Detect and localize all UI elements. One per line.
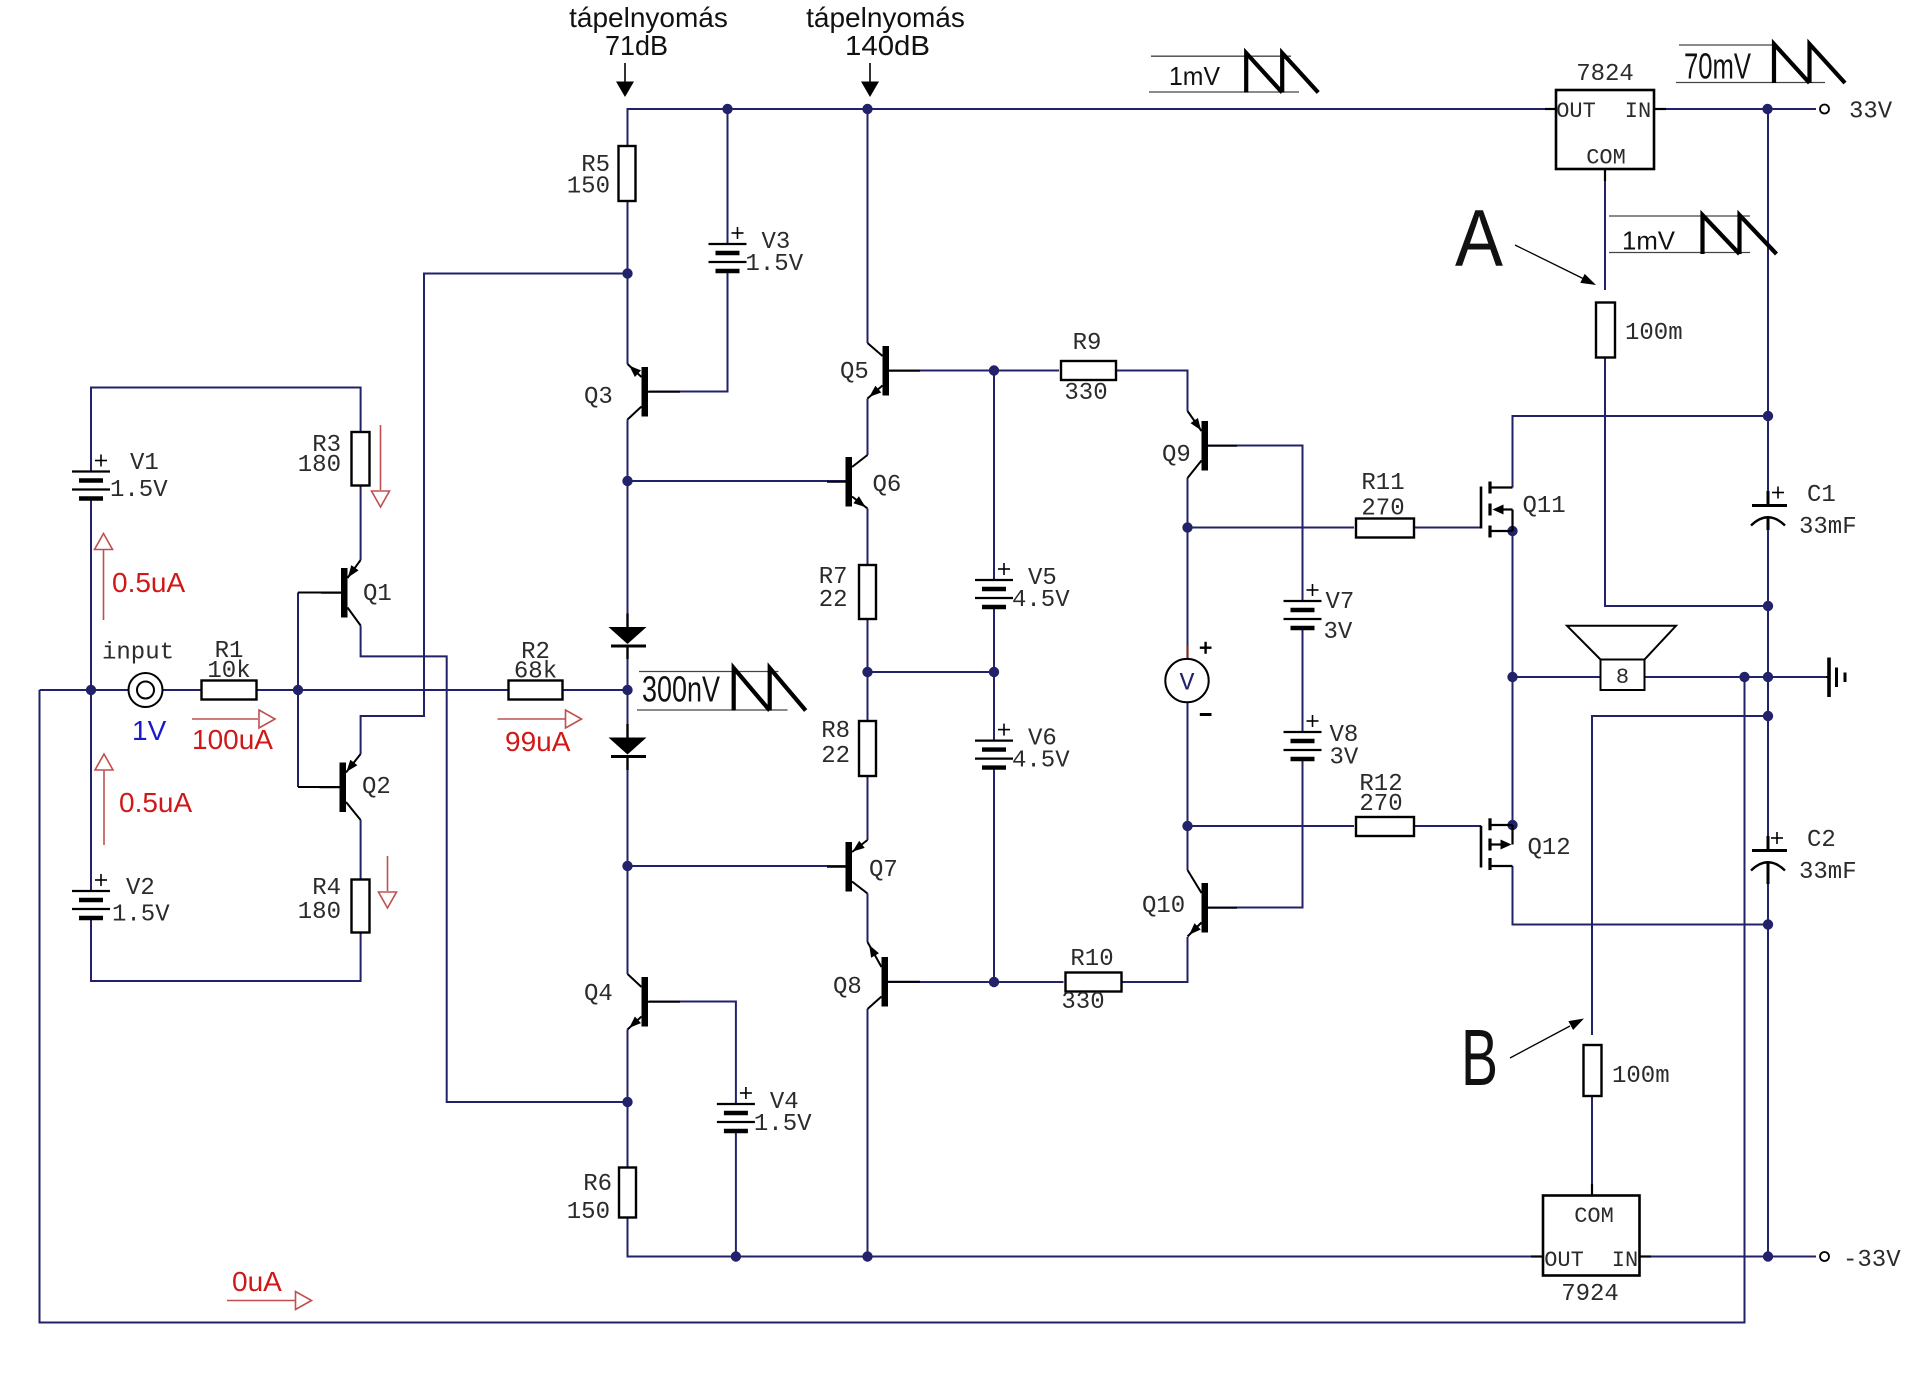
wire Q4 base to V4 (649, 1002, 736, 1105)
current arrow 100uA (192, 710, 275, 755)
battery V4 1.5V (717, 1087, 812, 1138)
current arrow 0uA (227, 1266, 312, 1310)
wire Q9 base to V7 (1208, 446, 1303, 602)
battery V6 4.5V (975, 724, 1070, 775)
regulator U1 7824 (1556, 61, 1654, 171)
wire V4 to -33V rail (735, 1131, 737, 1257)
wire R9 to Q9 emitter (1116, 371, 1188, 412)
svg-text:C1: C1 (1807, 482, 1836, 509)
svg-text:33mF: 33mF (1799, 514, 1857, 541)
svg-text:1.5V: 1.5V (754, 1111, 812, 1138)
node junction at 994,370.5 (989, 365, 999, 375)
svg-text:-33V: -33V (1843, 1247, 1901, 1274)
wire top rail 7824 IN to +33V terminal (1654, 108, 1816, 110)
node junction at 1512.5,825 (1507, 820, 1517, 830)
transistor Q6 (827, 455, 901, 509)
resistor R5 (567, 146, 636, 201)
resistor R6 (567, 1168, 636, 1227)
node junction at 1768,416 (1763, 411, 1773, 421)
svg-text:1.5V: 1.5V (110, 477, 168, 504)
wire R8 to Q7 collector (867, 776, 869, 840)
wire Q5 base to R9 (889, 370, 1059, 372)
label 1mV sawtooth A (1609, 215, 1777, 256)
svg-text:IN: IN (1625, 99, 1651, 124)
svg-text:Q5: Q5 (840, 359, 869, 386)
wire Q2 collector to R4 (360, 820, 362, 880)
svg-text:180: 180 (298, 899, 341, 926)
wire R3 to Q1 emitter (360, 486, 362, 561)
svg-text:140dB: 140dB (845, 30, 930, 61)
svg-text:180: 180 (298, 452, 341, 479)
svg-text:1mV: 1mV (1622, 226, 1676, 256)
svg-text:3V: 3V (1330, 745, 1359, 772)
MOSFET Q12 (1481, 818, 1571, 870)
wire V6 to R10 node (993, 768, 995, 982)
svg-text:71dB: 71dB (605, 30, 668, 61)
label 1mV sawtooth top (1149, 53, 1318, 93)
label tapelnyomas 140dB (806, 2, 965, 61)
svg-text:COM: COM (1574, 1204, 1614, 1229)
label tapelnyomas 71dB (569, 2, 728, 61)
wire R11 node to voltmeter (1187, 528, 1189, 647)
svg-text:100m: 100m (1612, 1063, 1670, 1090)
svg-text:330: 330 (1061, 989, 1104, 1016)
svg-text:R9: R9 (1073, 330, 1102, 357)
svg-text:Q1: Q1 (363, 581, 392, 608)
capacitor C1 (1751, 482, 1857, 541)
wire C2 to -33V rail (1767, 884, 1769, 1257)
diode D2 (609, 724, 647, 770)
wire R11 node to R11 (1188, 527, 1355, 529)
svg-text:0.5uA: 0.5uA (112, 567, 185, 598)
svg-text:22: 22 (819, 587, 848, 614)
wire top +rail from R5 corner to 7824 OUT (628, 109, 1557, 146)
svg-text:R11: R11 (1361, 470, 1404, 497)
label A with arrow (1455, 194, 1596, 285)
wire Q4 emitter to R6 (627, 1030, 629, 1168)
resistor R10 (1061, 946, 1121, 1016)
wire source to R1 (163, 689, 201, 691)
arrow into top rail 140dB (861, 63, 879, 97)
svg-text:Q12: Q12 (1528, 835, 1571, 862)
wire R9 node to V5 (993, 371, 995, 581)
wire voltmeter red terminal (1186, 646, 1188, 659)
svg-text:Q11: Q11 (1523, 493, 1566, 520)
node junction at 627.5,690 (622, 685, 632, 695)
svg-text:0uA: 0uA (232, 1266, 282, 1297)
svg-text:100uA: 100uA (192, 724, 273, 755)
node junction at 627.5,1102 (622, 1097, 632, 1107)
current arrow 99uA (498, 710, 582, 757)
wire top rail to Q5 collector (867, 109, 869, 343)
voltage source input (102, 640, 174, 708)
wire R5 bottom to Q3 emitter (627, 201, 629, 364)
node junction at 994,672 (989, 667, 999, 677)
wire input node to source (40, 689, 129, 691)
wire Q8 collector to -33V rail (867, 1009, 869, 1257)
node junction at 1187.5,527.5 (1182, 522, 1192, 532)
node junction at 994,982 (989, 977, 999, 987)
svg-text:B: B (1461, 1013, 1498, 1102)
wire Q3 collector to diode D1 (627, 420, 629, 614)
wire voltmeter to R12 node (1187, 703, 1189, 870)
diode D1 (609, 614, 647, 660)
svg-text:300nV: 300nV (642, 669, 720, 710)
svg-text:COM: COM (1586, 146, 1626, 171)
svg-text:70mV: 70mV (1684, 46, 1751, 87)
node junction at 1768,716 (1763, 711, 1773, 721)
battery V7 3V (1284, 584, 1355, 646)
svg-text:V7: V7 (1326, 589, 1355, 616)
svg-text:Q10: Q10 (1142, 893, 1185, 920)
wire Q11 drain to C1 node (1513, 416, 1769, 488)
node junction at 867.5,672 (862, 667, 872, 677)
node junction at 1768,924.5 (1763, 919, 1773, 929)
svg-text:R4: R4 (312, 875, 341, 902)
label 300nV sawtooth (637, 668, 806, 711)
wire Q8 base to R10 (888, 981, 1064, 983)
wire D2 cathode to Q7 base node to Q4 collector (627, 770, 629, 974)
current arrow down R4 (379, 856, 397, 908)
battery V1 1.5V (72, 450, 168, 504)
wire V7 to V8 (1302, 628, 1304, 732)
svg-text:input: input (102, 640, 174, 667)
resistor R11 (1356, 470, 1414, 538)
resistor R9 (1061, 330, 1116, 407)
wire Q1 collector to Q4 emitter node (361, 626, 628, 1103)
label 1V blue (132, 715, 167, 746)
wire sense resistor B to 7924 COM (1591, 1096, 1593, 1196)
svg-text:99uA: 99uA (505, 726, 571, 757)
svg-text:Q9: Q9 (1162, 442, 1191, 469)
svg-text:R10: R10 (1070, 946, 1113, 973)
ground (1826, 658, 1845, 698)
svg-text:22: 22 (821, 743, 850, 770)
speaker 8 ohm (1567, 626, 1676, 690)
wire sense resistor A to C1 node (1605, 358, 1768, 607)
node junction at 735.9,1256.5 (731, 1251, 741, 1261)
wire V3 to Q3 base (649, 272, 728, 392)
node junction at 867.5,109 (862, 104, 872, 114)
svg-text:10k: 10k (207, 658, 250, 685)
svg-text:V1: V1 (130, 450, 159, 477)
node junction at 1512.5,677 (1507, 672, 1517, 682)
transistor Q8 (833, 942, 920, 1009)
capacitor C2 (1751, 827, 1857, 886)
svg-text:Q2: Q2 (362, 774, 391, 801)
node junction at 1512.5,531 (1507, 526, 1517, 536)
resistor R7 (819, 564, 876, 619)
wire R12 to Q12 gate (1414, 825, 1481, 827)
resistor R3 (298, 432, 370, 486)
battery V3 1.5V (709, 227, 804, 278)
wire R12 node to R12 (1188, 825, 1355, 827)
wire R1 to base node to R2 (257, 689, 509, 691)
transistor Q5 (840, 343, 920, 399)
wire V2 top to input node (90, 690, 92, 891)
svg-text:0.5uA: 0.5uA (119, 787, 192, 818)
transistor Q7 (827, 840, 898, 894)
node junction at 627.5,866 (622, 861, 632, 871)
svg-text:R8: R8 (821, 718, 850, 745)
current arrow 0.5uA lower (95, 754, 192, 845)
wire Q7 emitter to Q8 emitter (867, 894, 869, 943)
wire C1 to C2 (1767, 530, 1769, 836)
battery V8 3V (1284, 715, 1359, 772)
node junction at 1187.5,826 (1182, 821, 1192, 831)
wire base node to Q2 base (298, 786, 340, 788)
svg-text:330: 330 (1064, 380, 1107, 407)
wire C2 node jog to sense resistor B (1592, 716, 1768, 1035)
node junction at 298,690 (293, 685, 303, 695)
wire -33V rail 7924 IN to terminal (1640, 1255, 1817, 1257)
wire Q5 emitter to Q6 collector (867, 399, 869, 456)
node junction at 1768,606 (1763, 601, 1773, 611)
wire Q9 collector to R11 node (1187, 478, 1189, 528)
svg-text:270: 270 (1361, 496, 1404, 523)
wire R11 to Q11 gate (1414, 527, 1481, 529)
svg-text:IN: IN (1612, 1248, 1638, 1273)
svg-text:Q4: Q4 (584, 981, 613, 1008)
svg-text:OUT: OUT (1544, 1248, 1584, 1273)
label B with arrow (1461, 1013, 1584, 1102)
svg-text:V: V (1179, 669, 1194, 698)
wire R7 node to V5/V6 midpoint (868, 671, 995, 673)
svg-text:150: 150 (567, 1199, 610, 1226)
svg-text:A: A (1455, 194, 1503, 284)
svg-text:8: 8 (1616, 665, 1629, 690)
svg-text:tápelnyomás: tápelnyomás (806, 2, 965, 33)
node junction at 867.5,1256.5 (862, 1251, 872, 1261)
wire Q6 emitter to R7 (867, 509, 869, 566)
wire speaker to ground (1645, 676, 1827, 678)
wire V8 to Q10 base (1208, 759, 1303, 908)
transistor Q4 (584, 974, 680, 1030)
svg-text:100m: 100m (1625, 320, 1683, 347)
svg-text:68k: 68k (514, 659, 557, 686)
voltmeter VM (1165, 642, 1211, 715)
svg-text:150: 150 (567, 174, 610, 201)
svg-text:OUT: OUT (1556, 99, 1596, 124)
wire base node to Q1 base (298, 592, 341, 594)
current arrow 0.5uA upper (95, 534, 186, 621)
svg-text:Q3: Q3 (584, 384, 613, 411)
wire top rail to V3 (727, 109, 729, 244)
wire bootstrap from R5 node down to Q2 emitter (361, 274, 628, 755)
transistor Q9 (1162, 411, 1237, 478)
wire V1 bottom to input node (90, 499, 92, 691)
wire Q1 base to Q2 base (297, 593, 299, 788)
wire 7824 COM to sense resistor A (1604, 169, 1606, 290)
svg-text:1.5V: 1.5V (746, 251, 804, 278)
node junction at 1744.5,677 (1739, 672, 1749, 682)
node junction at 727.5,109 (722, 104, 732, 114)
svg-text:7924: 7924 (1561, 1281, 1619, 1308)
svg-text:Q7: Q7 (869, 857, 898, 884)
svg-text:1.5V: 1.5V (112, 902, 170, 929)
wire Q11 source to speaker node (1512, 531, 1514, 677)
wire R4 to V2 bottom loop (91, 918, 361, 981)
svg-text:270: 270 (1359, 791, 1402, 818)
svg-text:4.5V: 4.5V (1012, 748, 1070, 775)
regulator U2 7924 (1543, 1196, 1640, 1309)
wire V1 to top loop to R3 (91, 388, 361, 472)
wire R7 to V5 node to R8 (867, 619, 869, 721)
svg-text:R6: R6 (583, 1171, 612, 1198)
transistor Q3 (584, 364, 680, 420)
node junction at 1767.5,109 (1762, 104, 1772, 114)
terminal +33V (1820, 99, 1893, 126)
node junction at 627.5,481 (622, 476, 632, 486)
transistor Q2 (320, 754, 391, 820)
svg-text:1V: 1V (132, 715, 167, 746)
resistor R8 (821, 718, 876, 776)
node junction at 91,690 (86, 685, 96, 695)
battery V2 1.5V (72, 874, 170, 929)
wire D1 cathode to D2 anode node (627, 659, 629, 724)
current arrow down R3 (372, 425, 390, 507)
wire R6 bottom to -33V rail to 7924 OUT (628, 1218, 1544, 1257)
svg-text:C2: C2 (1807, 827, 1836, 854)
node junction at 1768,1256.5 (1763, 1251, 1773, 1261)
resistor R2 (509, 639, 563, 700)
transistor Q1 (321, 560, 392, 626)
sense resistor B 100m (1584, 1045, 1670, 1096)
resistor R1 (202, 638, 257, 700)
wire Q12 source to speaker node (1512, 677, 1514, 825)
resistor R4 (298, 875, 370, 933)
terminal -33V (1820, 1247, 1901, 1274)
wire R2 to diode node (563, 689, 628, 691)
MOSFET Q11 (1481, 482, 1566, 538)
wire Q6 base to diode node (628, 480, 846, 482)
svg-text:33V: 33V (1849, 99, 1893, 126)
node junction at 627.5,273.5 (622, 268, 632, 278)
battery V5 4.5V (975, 563, 1070, 614)
svg-text:4.5V: 4.5V (1012, 587, 1070, 614)
svg-text:1mV: 1mV (1169, 61, 1221, 91)
svg-text:tápelnyomás: tápelnyomás (569, 2, 728, 33)
wire Q7 base to diode node (628, 865, 846, 867)
transistor Q10 (1142, 870, 1237, 937)
svg-text:7824: 7824 (1576, 61, 1634, 88)
wire ground return loop left/bottom/right (40, 677, 1745, 1323)
node junction at 1768,677 (1763, 672, 1773, 682)
wire top rail node to C1 (1767, 109, 1769, 491)
wire speaker node to speaker (1513, 676, 1601, 678)
wire V5 to midpoint node to V6 (993, 607, 995, 741)
svg-text:3V: 3V (1324, 619, 1353, 646)
wire R10 to Q10 emitter (1122, 937, 1188, 982)
wire Q12 drain to C2 node (1513, 866, 1769, 925)
sense resistor A 100m (1596, 303, 1683, 358)
arrow into top rail 71dB (616, 63, 634, 97)
resistor R12 (1356, 771, 1414, 836)
svg-text:Q8: Q8 (833, 974, 862, 1001)
svg-text:33mF: 33mF (1799, 859, 1857, 886)
svg-text:Q6: Q6 (873, 472, 902, 499)
label 70mV sawtooth (1676, 44, 1845, 87)
svg-text:V2: V2 (126, 875, 155, 902)
